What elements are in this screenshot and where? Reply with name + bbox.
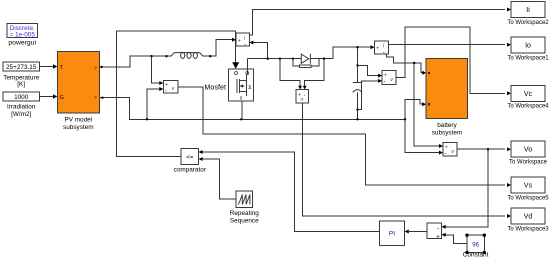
svg-text:Ii: Ii [526,7,530,14]
svg-text:[W/m2]: [W/m2] [11,111,31,118]
svg-text:Repeating: Repeating [230,210,260,217]
svg-text:>: > [94,66,97,72]
svg-text:-: - [383,50,385,56]
svg-text:Vc: Vc [524,91,533,98]
svg-text:To Workspace3: To Workspace3 [507,226,549,232]
svg-text:>: > [94,95,97,101]
svg-text:25+273.15: 25+273.15 [6,64,37,71]
svg-text:subsystem: subsystem [63,124,94,131]
svg-text:subsystem: subsystem [432,130,463,137]
svg-text:>: > [300,97,303,103]
svg-text:[K]: [K] [17,81,25,88]
svg-text:Vd: Vd [524,214,533,221]
svg-text:-: - [165,89,167,95]
svg-text:+: + [436,234,440,240]
svg-text:PV model: PV model [64,117,92,124]
svg-text:+: + [238,38,242,44]
svg-text:-: - [445,152,447,158]
svg-text:To Workspace5: To Workspace5 [507,195,549,201]
svg-text:To Workspace4: To Workspace4 [507,104,549,110]
svg-text:Vs: Vs [524,183,533,190]
svg-text:Irradiation: Irradiation [7,104,36,111]
svg-text:+: + [384,73,388,79]
svg-text:Constant: Constant [463,252,489,259]
svg-text:To Workspace: To Workspace [509,160,548,166]
svg-text:T: T [60,65,64,71]
svg-text:Sequence: Sequence [230,218,259,225]
svg-text:<=: <= [186,155,194,161]
svg-text:-: - [244,42,246,48]
svg-text:= 1e-005: = 1e-005 [9,31,35,38]
svg-text:-: - [384,80,386,86]
svg-text:powergui: powergui [8,40,36,47]
svg-text:Mosfet: Mosfet [204,82,226,91]
svg-text:battery: battery [437,122,457,129]
svg-text:Io: Io [525,43,531,50]
svg-text:+: + [376,46,380,52]
svg-text:1000: 1000 [14,94,29,101]
svg-text:G: G [60,95,64,101]
svg-text:To Workspace2: To Workspace2 [507,20,549,26]
svg-text:96: 96 [472,243,479,249]
svg-text:Vo: Vo [524,147,532,154]
svg-text:-: - [437,226,439,232]
svg-text:comparator: comparator [174,167,207,174]
svg-text:PI: PI [389,231,395,238]
svg-text:To Workspace1: To Workspace1 [507,56,549,62]
svg-text:+: + [445,145,449,151]
